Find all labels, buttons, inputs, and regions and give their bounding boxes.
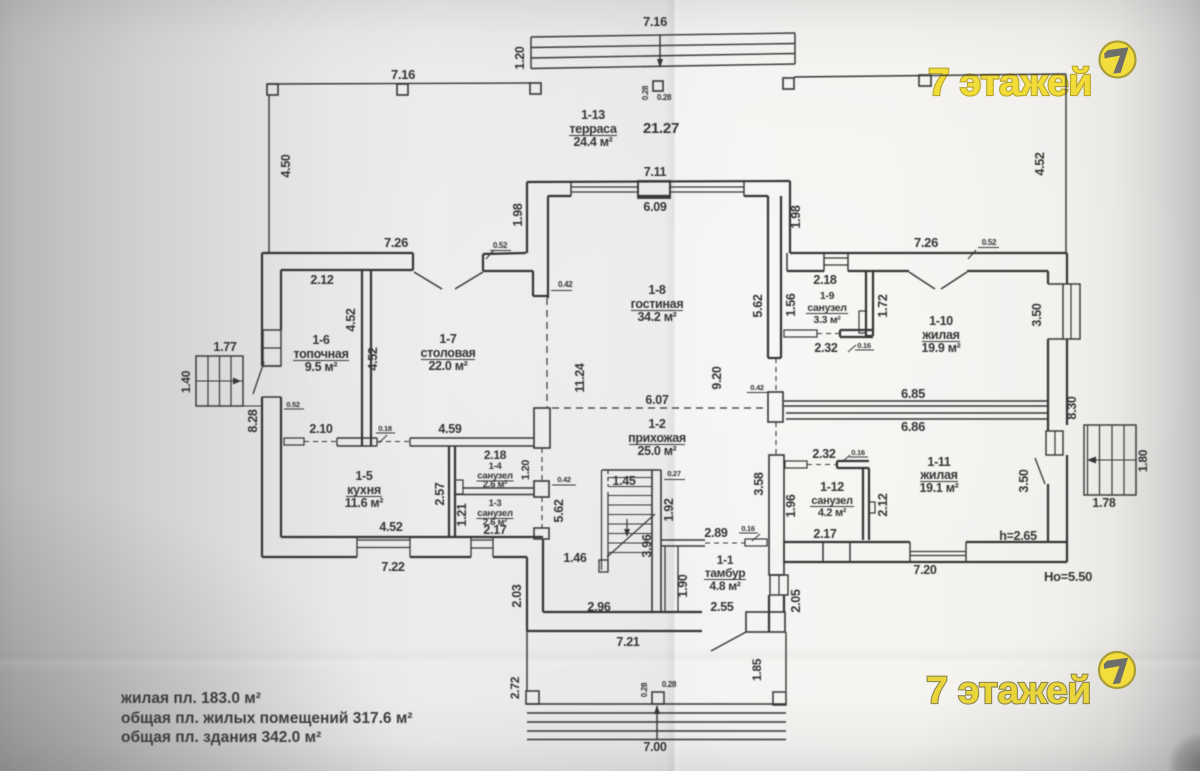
stair left rail [601, 470, 603, 570]
svg-text:жилая: жилая [921, 328, 959, 342]
svg-text:2.32: 2.32 [812, 447, 835, 461]
hall bottom wall [543, 611, 702, 613]
stair east direction arrow [1090, 459, 1136, 461]
svg-text:4.52: 4.52 [366, 347, 380, 370]
dashed line 6.07 hall [552, 407, 766, 409]
pilaster on hall east wall [768, 392, 783, 422]
svg-text:1-12: 1-12 [820, 480, 844, 494]
svg-text:7.26: 7.26 [914, 235, 938, 250]
door gap bottom and swing [711, 632, 746, 651]
svg-text:9.5 м²: 9.5 м² [305, 360, 338, 374]
wall east of sanuzel 1-9 (1.72) [865, 271, 867, 336]
svg-text:1.56: 1.56 [784, 293, 798, 316]
svg-text:7.21: 7.21 [616, 635, 639, 649]
svg-text:санузел: санузел [811, 495, 853, 507]
svg-text:5.62: 5.62 [552, 499, 566, 522]
dashed hall west wall [541, 448, 543, 481]
svg-text:0.28: 0.28 [662, 680, 677, 689]
svg-text:2.55: 2.55 [710, 600, 733, 614]
stair west mid line and arrow [196, 380, 243, 382]
svg-text:прихожая: прихожая [628, 431, 686, 445]
window east 3.50 room 1-10 [1063, 284, 1080, 339]
svg-text:0.16: 0.16 [857, 341, 871, 350]
svg-text:24.4 м²: 24.4 м² [573, 135, 612, 149]
svg-text:топочная: топочная [293, 347, 348, 361]
svg-text:1-5: 1-5 [355, 469, 373, 483]
window in west wall [263, 330, 281, 366]
svg-text:3.96: 3.96 [640, 534, 654, 557]
svg-text:4.8 м²: 4.8 м² [709, 579, 740, 593]
svg-text:3.50: 3.50 [1030, 303, 1044, 326]
svg-text:11.6 м²: 11.6 м² [345, 496, 384, 510]
window pier center [638, 181, 670, 198]
svg-text:1.72: 1.72 [876, 294, 890, 317]
svg-text:22.0 м²: 22.0 м² [428, 359, 467, 373]
tick 0.52 east [968, 250, 976, 259]
svg-text:1.46: 1.46 [563, 551, 586, 565]
svg-text:0.28: 0.28 [657, 93, 672, 102]
stair break diagonal [607, 514, 655, 557]
column east [919, 75, 931, 86]
svg-text:1.45: 1.45 [612, 474, 635, 488]
svg-text:1.21: 1.21 [455, 503, 469, 526]
svg-text:терраса: терраса [569, 122, 618, 136]
tick 0.52 west [486, 250, 494, 259]
dash door 1-9 [817, 333, 840, 335]
divider топочная/столовая [361, 270, 363, 446]
dash gap 0.18 [377, 441, 410, 443]
wall 5.62 between living room and rooms 1-9/1-10 [780, 196, 782, 358]
svg-text:7.11: 7.11 [644, 165, 667, 179]
svg-text:2.57: 2.57 [433, 482, 447, 505]
porch side east [785, 632, 787, 691]
svg-text:жилая: жилая [919, 468, 957, 482]
svg-text:2.6 м²: 2.6 м² [483, 479, 507, 490]
svg-text:санузел: санузел [807, 302, 846, 314]
window 1-3 south [471, 539, 493, 541]
svg-text:19.9 м²: 19.9 м² [921, 341, 960, 355]
svg-text:1.77: 1.77 [213, 340, 236, 354]
window west 6.09 [571, 186, 638, 188]
svg-text:0.42: 0.42 [557, 475, 571, 484]
svg-text:6.85: 6.85 [901, 386, 925, 401]
svg-text:25.0 м²: 25.0 м² [637, 444, 676, 458]
tambour north wall with door 2.89 [661, 539, 705, 541]
wall east of sanuzel 1-12 (2.12) [862, 468, 864, 540]
svg-text:столовая: столовая [420, 346, 475, 360]
door leaf east of 1-12 [869, 502, 875, 513]
west wall inner lower [280, 397, 282, 537]
door jamb 1-4 [455, 480, 463, 494]
svg-text:8.28: 8.28 [246, 409, 260, 432]
svg-text:1.92: 1.92 [662, 498, 676, 521]
wall south of sanuzel 1-9 [840, 329, 873, 331]
east wall to south corner [1066, 543, 1068, 562]
column west end [267, 84, 278, 95]
svg-text:2.18: 2.18 [484, 448, 507, 462]
svg-text:2.72: 2.72 [508, 676, 522, 699]
wall north-west wing (7.26) [262, 252, 413, 254]
block 3 hall west [534, 528, 549, 539]
stair arrow [626, 519, 628, 533]
door leaf sanuzel 1-9 open [784, 330, 817, 337]
living room east wall outer [789, 181, 791, 253]
svg-text:2.12: 2.12 [876, 493, 890, 516]
svg-text:1-11: 1-11 [927, 455, 950, 469]
svg-text:2.12: 2.12 [310, 273, 333, 287]
svg-text:7.16: 7.16 [391, 67, 415, 82]
east wall mid [1047, 339, 1049, 431]
svg-text:21.27: 21.27 [643, 120, 679, 137]
dash door tambour [705, 542, 745, 544]
living room west wall outer [526, 182, 528, 253]
tambour west inner wall (1.90) [664, 546, 666, 612]
stair top border [602, 469, 661, 471]
svg-text:7 этажей: 7 этажей [928, 62, 1092, 104]
svg-text:1.20: 1.20 [520, 460, 532, 480]
exterior stair west (1.77 x 1.40) [196, 356, 243, 406]
svg-text:1-6: 1-6 [312, 333, 330, 347]
wall north living room inner [548, 195, 571, 197]
svg-text:2.03: 2.03 [510, 584, 524, 607]
svg-text:0.52: 0.52 [982, 238, 997, 247]
svg-text:0.16: 0.16 [741, 524, 755, 533]
porch column center [652, 692, 664, 704]
door double leaf west terrace [414, 272, 442, 289]
svg-text:2.18: 2.18 [813, 273, 836, 287]
dash door 1-12 [807, 464, 837, 466]
west wall outer [261, 253, 263, 366]
wall segment кухня north west [337, 437, 377, 439]
living room west wall inner [547, 196, 549, 298]
wall segment with 0.52 tick west [483, 253, 526, 254]
door leaf 1-12 [785, 461, 807, 468]
svg-text:1-2: 1-2 [648, 417, 666, 431]
svg-text:1.96: 1.96 [784, 494, 798, 517]
watermark logo top right [1100, 42, 1136, 78]
pilaster 1 hall west [534, 408, 550, 448]
svg-text:1-9: 1-9 [820, 290, 835, 302]
west boundary line 4.50 [268, 95, 270, 253]
svg-text:0.28: 0.28 [641, 85, 650, 100]
svg-text:1.85: 1.85 [750, 658, 764, 681]
svg-text:2.32: 2.32 [814, 341, 837, 355]
svg-text:4.2 м²: 4.2 м² [818, 507, 847, 519]
door leaf кухня [284, 438, 304, 445]
svg-text:6.09: 6.09 [643, 200, 666, 214]
svg-text:1.90: 1.90 [676, 574, 690, 597]
terrace guide line east [794, 74, 1066, 77]
svg-text:1-7: 1-7 [439, 332, 457, 346]
east wall inner upper [1047, 271, 1049, 284]
exterior stair east (1.78 x 1.80) [1084, 425, 1136, 495]
svg-text:кухня: кухня [347, 483, 381, 497]
svg-text:3.50: 3.50 [1017, 469, 1031, 492]
porch column east [773, 692, 786, 705]
wall 3.58 tambour east [769, 455, 784, 575]
porch side west [526, 631, 528, 691]
svg-text:4.52: 4.52 [1033, 152, 1047, 175]
window lines south wall 1-11 [910, 551, 966, 553]
divider wall 1-4/1-3 [463, 487, 534, 489]
dashed wall line hall east [775, 358, 777, 392]
svg-text:6.07: 6.07 [645, 393, 668, 407]
svg-text:7.00: 7.00 [643, 740, 666, 754]
svg-text:Но=5.50: Но=5.50 [1044, 569, 1092, 584]
svg-text:9.20: 9.20 [710, 366, 724, 389]
column terrace left [530, 83, 541, 94]
svg-text:4.50: 4.50 [279, 154, 293, 177]
terrace steps (7.16) top [531, 33, 795, 37]
svg-text:2.05: 2.05 [789, 589, 803, 612]
hall west wall lower [526, 557, 528, 631]
svg-text:общая пл. здания 342.0 м²: общая пл. здания 342.0 м² [121, 729, 321, 746]
svg-text:общая пл. жилых помещений 317: общая пл. жилых помещений 317.6 м² [121, 710, 413, 727]
column terrace center small [653, 81, 663, 91]
svg-text:4.52: 4.52 [379, 520, 402, 534]
column terrace right [783, 78, 794, 89]
divider кухня/санузлы (2.57) [448, 446, 450, 538]
svg-text:0.52: 0.52 [286, 400, 300, 409]
wall south east wing [784, 541, 910, 543]
svg-text:1.40: 1.40 [179, 370, 193, 393]
svg-text:0.18: 0.18 [378, 424, 392, 433]
svg-text:8.30: 8.30 [1065, 396, 1079, 419]
east wall outer upper [1066, 253, 1068, 284]
wall step block west of living room [532, 271, 534, 296]
svg-text:0.42: 0.42 [750, 383, 764, 392]
stair hall / tambour wall (1.92-3.96) [651, 470, 653, 612]
terrace guide line west [268, 83, 531, 84]
window east at stair landing [1046, 431, 1063, 455]
svg-text:1.20: 1.20 [513, 46, 527, 69]
svg-text:2.17: 2.17 [813, 527, 836, 541]
svg-text:1-8: 1-8 [648, 283, 666, 297]
west wall inner upper [280, 270, 282, 330]
stair treads [608, 477, 652, 479]
window box in south wall 1-11 west [823, 542, 850, 562]
svg-text:1.80: 1.80 [1136, 449, 1150, 472]
svg-text:0.16: 0.16 [851, 448, 865, 457]
window 4.52 south [357, 539, 410, 541]
svg-text:11.24: 11.24 [573, 363, 587, 392]
vent box [770, 575, 788, 595]
svg-text:3.58: 3.58 [752, 472, 766, 495]
wall north of sanuzel 1-12 [837, 460, 869, 462]
svg-text:6.86: 6.86 [901, 419, 925, 434]
door double leaf east terrace [909, 272, 935, 289]
svg-text:7 этажей: 7 этажей [926, 670, 1091, 712]
svg-text:4.59: 4.59 [438, 422, 461, 436]
svg-text:2.10: 2.10 [309, 422, 332, 436]
svg-text:0.42: 0.42 [558, 280, 573, 289]
door frame 2.18 in north wall [824, 257, 848, 259]
svg-text:1.98: 1.98 [511, 203, 525, 226]
porch dimension line 7.00 [656, 706, 658, 739]
porch column west [526, 691, 539, 704]
stair newel post [599, 560, 608, 572]
wall below vent [768, 595, 770, 632]
living room east wall inner [767, 196, 769, 358]
wall 6.85 [784, 400, 1048, 402]
svg-text:4.52: 4.52 [344, 308, 358, 331]
svg-text:0.27: 0.27 [667, 469, 681, 478]
porch steps [527, 712, 786, 714]
svg-text:34.2 м²: 34.2 м² [637, 310, 676, 324]
wall south west wing [281, 536, 543, 538]
svg-text:1-1: 1-1 [717, 553, 734, 567]
wall north living room outer [527, 181, 790, 182]
svg-text:7.22: 7.22 [381, 560, 404, 574]
svg-text:1-10: 1-10 [929, 314, 953, 328]
dash door кухня [304, 441, 337, 443]
svg-text:1-13: 1-13 [581, 108, 605, 122]
svg-text:7.20: 7.20 [913, 563, 936, 577]
pilaster 2 hall west [534, 481, 549, 497]
svg-text:5.62: 5.62 [751, 294, 765, 317]
west door gap and swing [253, 362, 264, 394]
block bottom right of door [746, 612, 785, 632]
svg-text:7.16: 7.16 [643, 14, 667, 29]
svg-text:тамбур: тамбур [705, 566, 746, 580]
east door gap and swing [1035, 458, 1045, 484]
column mid-west [397, 84, 408, 95]
east boundary line 4.52 [1065, 74, 1067, 253]
svg-text:гостиная: гостиная [631, 297, 684, 311]
svg-text:19.1 м²: 19.1 м² [919, 481, 958, 495]
svg-text:0.28: 0.28 [640, 682, 649, 697]
svg-text:жилая пл. 183.0 м²: жилая пл. 183.0 м² [120, 690, 261, 707]
east wall lower [1047, 484, 1049, 543]
wall 4.59 east end [500, 437, 534, 439]
porch top line [527, 703, 786, 705]
svg-text:3.3 м²: 3.3 м² [814, 314, 842, 326]
watermark logo bottom right [1099, 652, 1135, 688]
wall 6.86 [786, 412, 1048, 414]
svg-text:1.78: 1.78 [1092, 496, 1115, 510]
dimension arrow 7.16 terrace [659, 35, 661, 64]
wall segment 4.59 [410, 437, 500, 439]
svg-text:7.26: 7.26 [384, 235, 408, 250]
svg-text:0.52: 0.52 [493, 241, 508, 250]
svg-text:2.17: 2.17 [483, 523, 506, 537]
svg-text:2.89: 2.89 [704, 526, 727, 540]
stair landing connector [243, 405, 262, 407]
door leaf sanuzel 1-9 side [859, 311, 866, 333]
door leaf tambour [745, 539, 767, 546]
wall north-east wing (7.26) [790, 252, 1067, 254]
dashed line столовая/гостиная [546, 298, 548, 407]
window east 6.09 [670, 186, 744, 188]
